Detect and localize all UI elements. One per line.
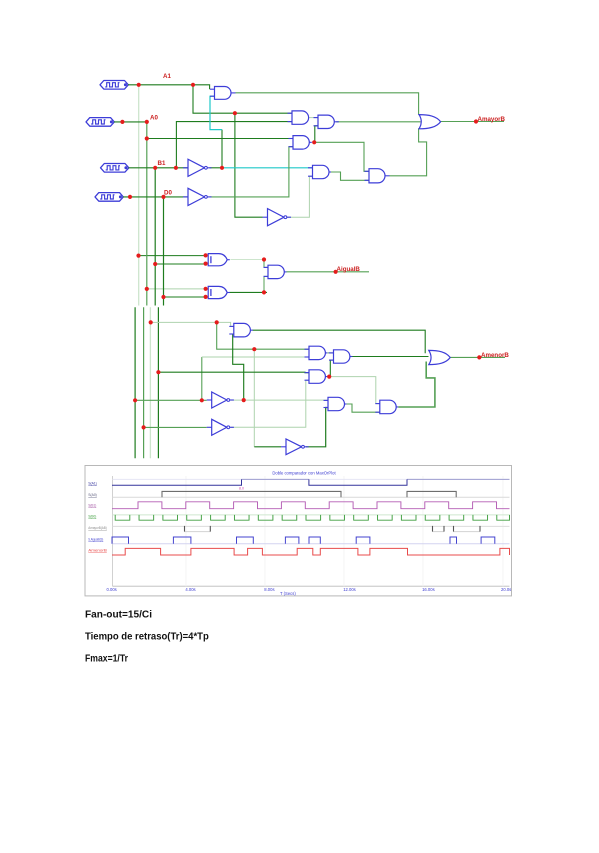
wire bus net2 vertical: [143, 307, 145, 458]
wire B1n teal to U1 input: [210, 96, 222, 129]
waveform trace row4 (B0): [113, 515, 510, 520]
AND gate U14: [229, 323, 253, 337]
junction U5 output: [312, 140, 316, 144]
wire U14 out to OR U21: [253, 330, 426, 353]
pulse source V3 (B1): [101, 164, 129, 173]
svg-text:AmenorB: AmenorB: [481, 352, 509, 359]
inverter U20: [281, 439, 309, 455]
wire net2 to inverter U19: [144, 426, 207, 428]
svg-text:Fmax=1/Tr: Fmax=1/Tr: [85, 652, 128, 664]
AND gate U22: [329, 350, 352, 363]
XNOR gate U8: [208, 254, 230, 266]
svg-text:AmenorB: AmenorB: [88, 548, 107, 553]
junction A0 bus: [145, 120, 149, 124]
wire A1 vertical bus: [138, 85, 140, 306]
inverter U10 (A1): [263, 209, 292, 226]
OR gate U21: [429, 350, 450, 364]
wire AigualB output: [287, 271, 370, 273]
wire B0 to XNOR U9: [164, 296, 206, 298]
waveform trace row3 (B1): [112, 502, 510, 509]
junction A1 bus: [137, 83, 141, 87]
AND gate U17: [324, 397, 347, 410]
junction net3 branch: [215, 320, 219, 324]
AND gate U2: [314, 115, 339, 128]
wire U6 out to U7 input: [331, 172, 369, 180]
wire AmenorB output: [450, 356, 505, 358]
svg-text:S.AigualB(S): S.AigualB(S): [88, 537, 103, 542]
junction U9 input A: [204, 287, 208, 291]
svg-text:8.00s: 8.00s: [264, 587, 274, 592]
AND gate U4: [288, 111, 309, 124]
wire U16 out: [328, 376, 330, 378]
svg-text:4.00s: 4.00s: [185, 587, 195, 592]
junction AmayorB: [474, 119, 478, 123]
wire net4 to U16 input: [158, 371, 309, 373]
junction A0 branch: [145, 136, 149, 140]
wire A1 to U1 input: [128, 85, 210, 89]
svg-text:AmayorB: AmayorB: [478, 116, 506, 123]
wire B1 from source: [129, 167, 189, 169]
wire B0 from source: [123, 196, 188, 198]
wire U18 out to U17 input: [231, 399, 328, 401]
wire U16 out to U22 input: [329, 360, 333, 377]
wire net3 branch to inverter U20: [254, 446, 281, 448]
junction net1 bus: [133, 398, 137, 402]
waveform trace row1 (A1): [112, 479, 510, 485]
junction B1 bus: [153, 166, 157, 170]
wire U5 out to U2 input: [314, 126, 318, 143]
wire U15 out to U22: [328, 352, 334, 354]
AND gate U16: [305, 370, 328, 384]
wire A0 from source: [114, 121, 147, 123]
wire U20 out to U17 input: [306, 408, 328, 447]
waveform trace row2 (A0): [113, 491, 510, 497]
svg-text:8.0: 8.0: [239, 487, 244, 491]
junction net4 bus: [156, 370, 160, 374]
pulse source V1 (A1): [100, 81, 128, 90]
wire U23 out to OR U21: [398, 362, 435, 408]
svg-text:D0: D0: [164, 190, 172, 197]
wire A0 to U5 input: [147, 138, 293, 140]
junction AmenorB: [477, 355, 481, 359]
wire A1 to XNOR U8: [139, 255, 206, 257]
wire U7 out to OR U3: [390, 128, 427, 176]
wire U19 out to U16 input: [231, 380, 309, 427]
inverter U13 (B0): [183, 188, 212, 205]
wire A0 to XNOR U9: [147, 288, 206, 290]
junction B0 a: [128, 195, 132, 199]
wire net3 branch vertical: [253, 349, 255, 447]
svg-text:20.0s: 20.0s: [501, 587, 511, 592]
wire net1 branch to U15 input: [202, 356, 309, 358]
wire U10 out to U6 input: [285, 176, 313, 217]
junction U9 input B: [204, 295, 208, 299]
wire U9 out: [230, 291, 268, 293]
junction net3 tap: [252, 347, 256, 351]
junction net1 tap: [200, 398, 204, 402]
AND gate U23: [375, 400, 398, 414]
junction B1 branch: [174, 166, 178, 170]
wire U4 out to U2: [309, 117, 318, 119]
svg-text:AmayorB(AB): AmayorB(AB): [88, 525, 107, 530]
svg-text:12.00s: 12.00s: [343, 587, 356, 592]
junction U8 input A: [204, 253, 208, 257]
waveform panel frame: [85, 466, 512, 596]
junction U8 out: [262, 257, 266, 261]
svg-text:Doble comparador con MaxOrPlot: Doble comparador con MaxOrPlot: [272, 471, 336, 476]
svg-text:T (Secs): T (Secs): [280, 591, 296, 596]
inverter U12 (B1): [183, 159, 212, 176]
AND gate U6: [308, 165, 331, 178]
wire A1 branch to inverter U10: [235, 113, 263, 217]
wire B1 vertical bus: [154, 168, 156, 306]
junction U16 output: [327, 375, 331, 379]
AND gate U15: [305, 346, 328, 359]
junction U18 output: [242, 398, 246, 402]
junction net2 bus: [142, 425, 146, 429]
svg-text:16.00s: 16.00s: [422, 587, 435, 592]
pulse source V4 (B0): [95, 193, 123, 202]
XNOR gate U9: [208, 286, 230, 298]
wire B1 branch to U4 input: [176, 122, 292, 168]
wire B0n to U5 input: [210, 147, 294, 197]
junction A0 XNOR tap: [145, 287, 149, 291]
waveform axis labels: [107, 587, 512, 596]
junction U9 out: [262, 290, 266, 294]
svg-text:S(A0): S(A0): [88, 492, 97, 497]
wire U1 out to OR U3: [236, 93, 419, 115]
OR gate U3: [419, 115, 441, 129]
junction B0 XNOR tap: [161, 295, 165, 299]
wire U5 out to U7 input: [314, 142, 369, 171]
AND gate U1: [210, 86, 236, 99]
wire U8 out: [231, 259, 265, 261]
AND gate U7: [365, 169, 390, 183]
svg-text:A0: A0: [150, 115, 158, 122]
wire bus net1 vertical: [134, 307, 136, 458]
svg-text:S(B1): S(B1): [88, 503, 97, 508]
wire net1 branch vertical: [201, 357, 203, 400]
wire net1 to inverter U18: [135, 399, 207, 401]
inverter U19: [207, 419, 234, 435]
junction B0 bus: [161, 195, 165, 199]
svg-text:A1: A1: [163, 73, 171, 80]
waveform trace row6 (AigualB): [112, 537, 510, 544]
wire U22 out to OR U21: [352, 356, 429, 358]
svg-text:Fan-out=15/Ci: Fan-out=15/Ci: [85, 609, 152, 621]
wire U9 out to U11: [264, 276, 268, 292]
wire A0 vertical bus: [146, 122, 148, 306]
wire U16 out to U23 input: [329, 377, 380, 404]
junction A1 XNOR tap: [136, 254, 140, 258]
wire A1 branch to U4 input: [193, 85, 292, 113]
wire bus net3 vertical: [149, 307, 151, 458]
wire B1n vertical: [221, 130, 223, 168]
svg-text:Tiempo de retraso(Tr)=4*Tp: Tiempo de retraso(Tr)=4*Tp: [85, 630, 209, 642]
svg-text:S(B0): S(B0): [88, 514, 97, 519]
junction A1 branch: [191, 83, 195, 87]
wire U8 out to U11: [264, 260, 268, 268]
wire B1n from inverter: [210, 167, 223, 169]
junction U8 input B: [204, 262, 208, 266]
wire net3 to U14 input: [150, 322, 233, 326]
junction A1 to inverter: [233, 111, 237, 115]
wire AmayorB output: [441, 121, 505, 123]
wire B1n to U6 input: [222, 167, 313, 169]
svg-text:B1: B1: [158, 160, 166, 167]
AND gate U5: [289, 136, 312, 150]
svg-text:S(A1): S(A1): [88, 481, 97, 486]
AND gate U11: [264, 265, 287, 278]
waveform row labels: [88, 481, 107, 553]
junction net3 bus: [149, 320, 153, 324]
wire U18 out to U14 input: [233, 334, 244, 400]
wire B1 to XNOR U8: [155, 263, 206, 265]
inverter U18: [207, 392, 234, 408]
wire U2 out to OR U3: [336, 121, 420, 123]
waveform trace row7 (AmenorB): [112, 548, 510, 555]
waveform plot axis: [113, 476, 510, 586]
svg-text:0.00s: 0.00s: [107, 587, 117, 592]
junction AigualB: [334, 270, 338, 274]
wire bus net4 vertical: [157, 307, 159, 458]
wire net3 branch to U15 input: [217, 322, 309, 349]
wire U17 out to U23 input: [347, 404, 380, 412]
svg-text:AigualB: AigualB: [337, 266, 361, 273]
wire B0 vertical bus: [163, 197, 165, 306]
waveform trace row5 (AmayorB): [113, 526, 510, 532]
pulse source V2 (A0): [86, 118, 114, 127]
junction B1n: [220, 166, 224, 170]
junction B1 XNOR tap: [153, 262, 157, 266]
junction A0 a: [120, 120, 124, 124]
